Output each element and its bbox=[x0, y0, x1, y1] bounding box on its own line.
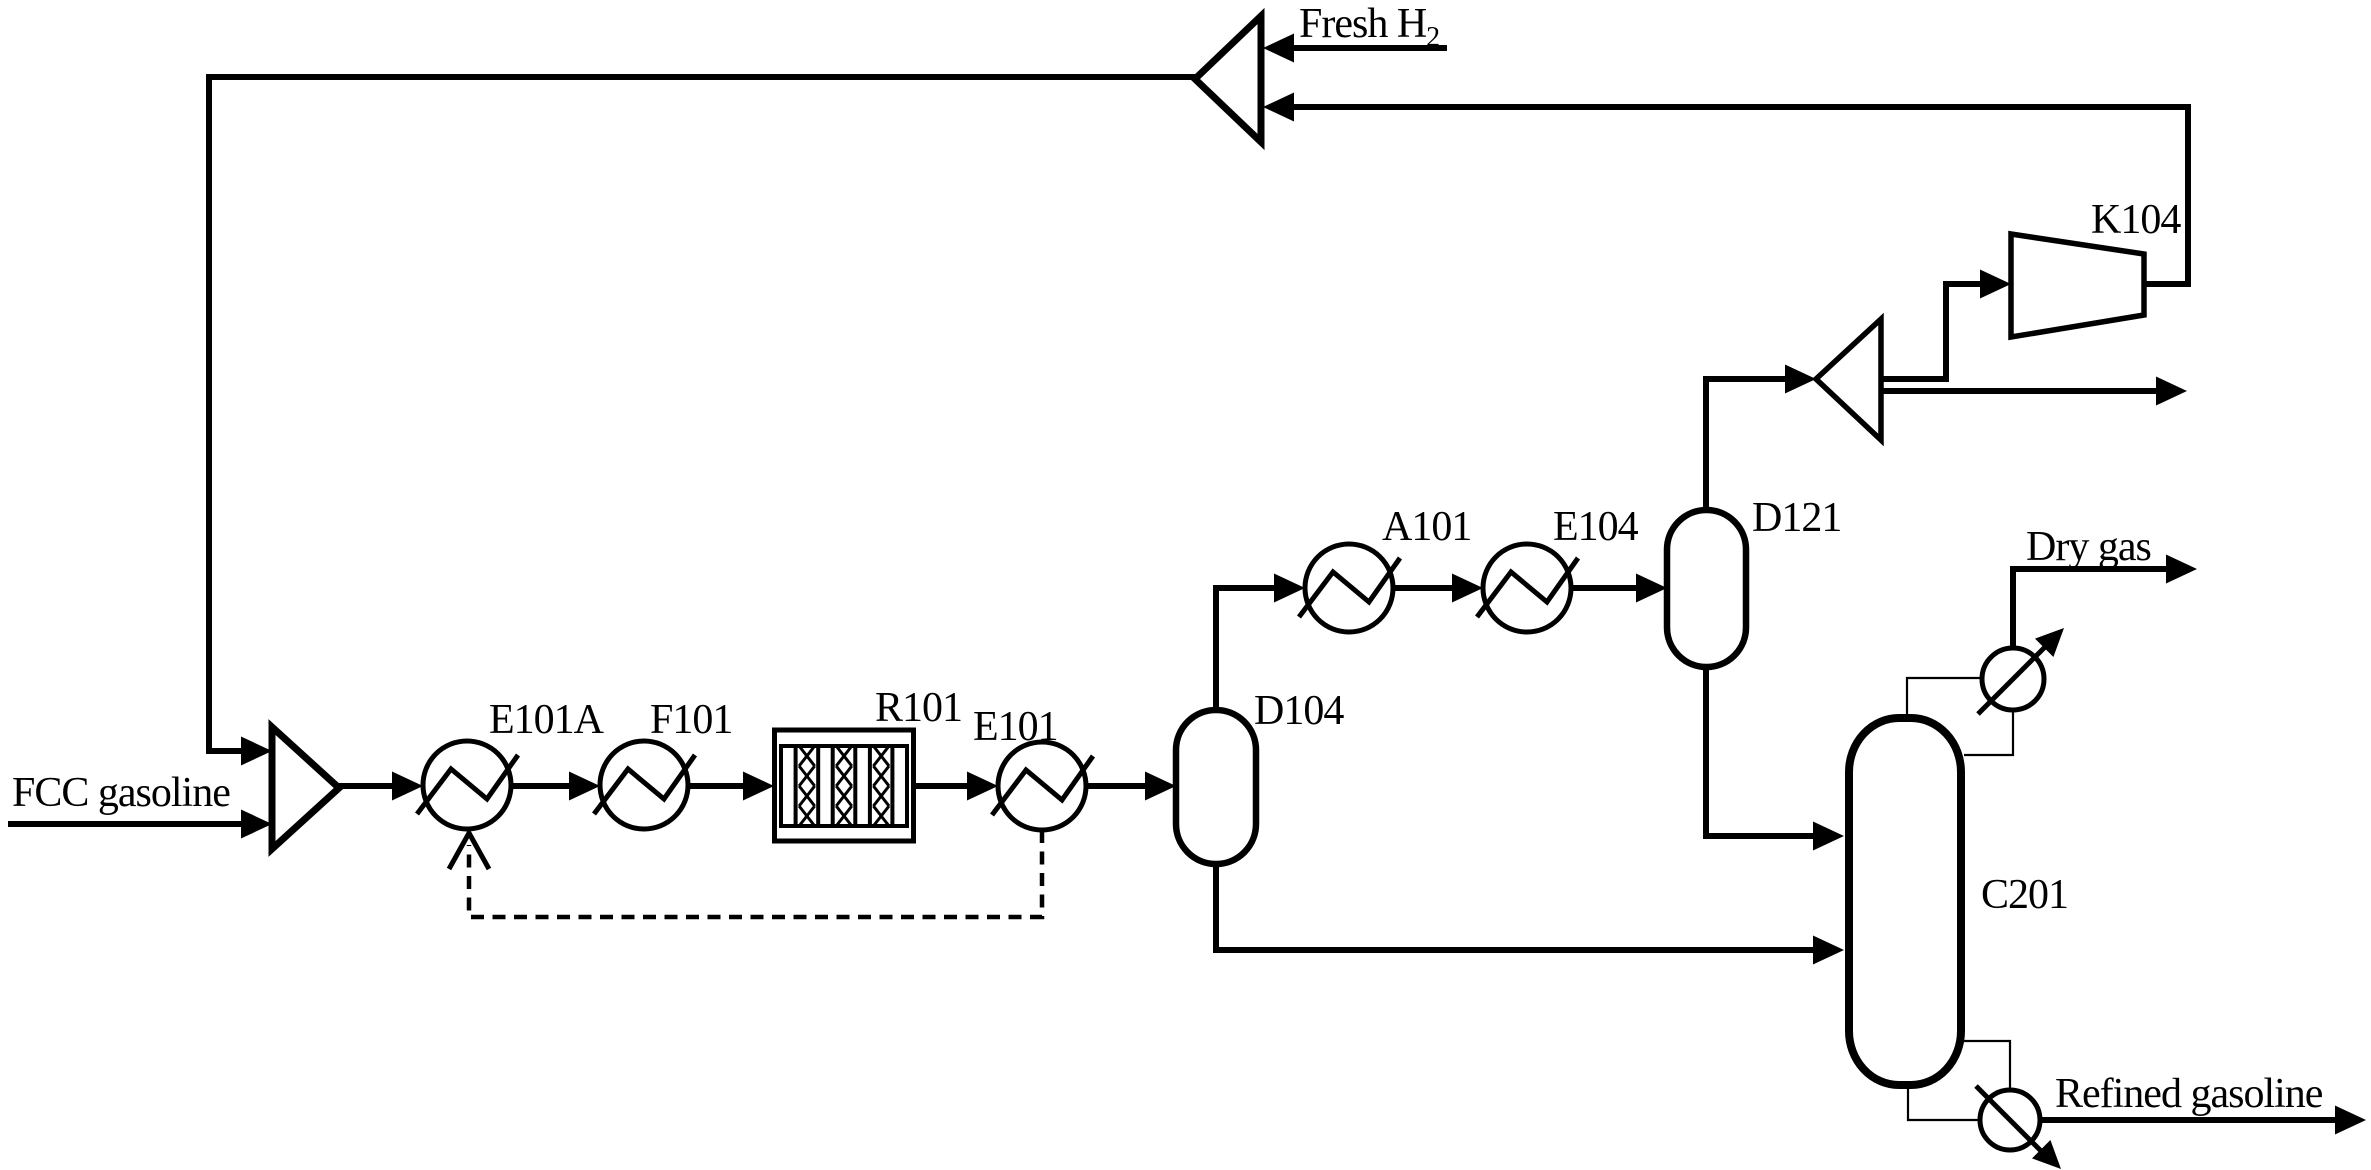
separator drum D121 bbox=[1667, 510, 1746, 667]
svg-text:R101: R101 bbox=[875, 685, 962, 731]
air cooler A101 bbox=[1299, 544, 1400, 632]
svg-text:C201: C201 bbox=[1981, 872, 2068, 918]
svg-text:Refined gasoline: Refined gasoline bbox=[2055, 1071, 2323, 1117]
ejector nozzle bbox=[1816, 319, 1881, 440]
wire: open arrowhead into E101A shell side bbox=[449, 833, 489, 869]
svg-text:A101: A101 bbox=[1382, 504, 1471, 550]
wire: D104 bottoms to C201 lower feed bbox=[1216, 864, 1844, 965]
label: D104 bbox=[1254, 688, 1344, 734]
wire: D121 overhead to ejector bbox=[1706, 365, 1816, 511]
svg-text:F101: F101 bbox=[650, 697, 732, 743]
label: Refined gasoline bbox=[2055, 1071, 2323, 1117]
label: E101A bbox=[489, 697, 605, 743]
condenser pump-around symbol bbox=[1978, 628, 2064, 714]
wire: reboiler liquid draw (thin) bbox=[1908, 1089, 1981, 1120]
heat exchanger E101A bbox=[417, 741, 518, 829]
separator drum D104 bbox=[1176, 710, 1256, 864]
heat exchanger E104 bbox=[1477, 544, 1578, 632]
heater F101 bbox=[594, 741, 695, 829]
svg-text:E104: E104 bbox=[1553, 504, 1639, 550]
wire: D121 bottoms to C201 upper feed bbox=[1706, 667, 1844, 851]
wire: Fresh H2 inlet bbox=[1263, 34, 1447, 63]
wire: refined gasoline export bbox=[2040, 1106, 2366, 1135]
wire: FCC gasoline feed bbox=[8, 810, 272, 839]
svg-text:FCC gasoline: FCC gasoline bbox=[12, 770, 230, 816]
wire: mixer M1 outlet down left side into mixer M2 bbox=[209, 77, 1195, 766]
mixer M2 (feed mixing tee) bbox=[272, 727, 339, 849]
svg-text:Dry gas: Dry gas bbox=[2026, 524, 2151, 570]
wire: D104 overhead to A101 bbox=[1216, 574, 1305, 711]
wire: reboiler vapor return (thin) bbox=[1964, 1041, 2010, 1091]
column C201 bbox=[1849, 718, 1961, 1085]
wire: dashed heat-integration control line E101 to E101A bbox=[469, 830, 1042, 917]
label: D121 bbox=[1752, 495, 1841, 541]
label: Fresh H2 bbox=[1299, 1, 1439, 53]
svg-text:K104: K104 bbox=[2091, 197, 2181, 243]
wire: E101 to D104 bbox=[1086, 772, 1176, 801]
wire: F101 to R101 bbox=[688, 772, 774, 801]
wire: E104 to D121 bbox=[1571, 574, 1667, 603]
label: Dry gas bbox=[2026, 524, 2151, 570]
wire: A101 to E104 bbox=[1393, 574, 1483, 603]
wire: ejector to K104 suction bbox=[1881, 270, 2011, 380]
heat exchanger E101 bbox=[992, 742, 1093, 830]
wire: ejector purge export bbox=[1881, 377, 2187, 406]
svg-text:E101A: E101A bbox=[489, 697, 605, 743]
label: E101 bbox=[973, 704, 1058, 750]
label: K104 bbox=[2091, 197, 2181, 243]
label: F101 bbox=[650, 697, 732, 743]
label: R101 bbox=[875, 685, 962, 731]
reactor R101 bbox=[775, 730, 914, 841]
label: C201 bbox=[1981, 872, 2068, 918]
label: E104 bbox=[1553, 504, 1639, 550]
wire: M2 to E101A bbox=[339, 772, 423, 801]
wire: C201 overhead to condenser (thin) bbox=[1907, 678, 1982, 716]
wire: condenser reflux return (thin) bbox=[1964, 710, 2013, 755]
wire: recycle gas from K104 back to mixer bbox=[1263, 93, 2188, 285]
svg-text:E101: E101 bbox=[973, 704, 1058, 750]
svg-text:D104: D104 bbox=[1254, 688, 1344, 734]
wire: E101A to F101 bbox=[511, 772, 600, 801]
label: A101 bbox=[1382, 504, 1471, 550]
mixer M1 (recycle hydrogen mixing tee) bbox=[1195, 16, 1261, 142]
label: FCC gasoline bbox=[12, 770, 230, 816]
wire: R101 to E101 bbox=[914, 772, 998, 801]
svg-text:Fresh H2: Fresh H2 bbox=[1299, 1, 1439, 53]
reboiler pump-around symbol bbox=[1976, 1086, 2061, 1169]
svg-text:D121: D121 bbox=[1752, 495, 1841, 541]
compressor K104 bbox=[2011, 234, 2144, 337]
wire: dry gas export bbox=[2013, 555, 2197, 649]
